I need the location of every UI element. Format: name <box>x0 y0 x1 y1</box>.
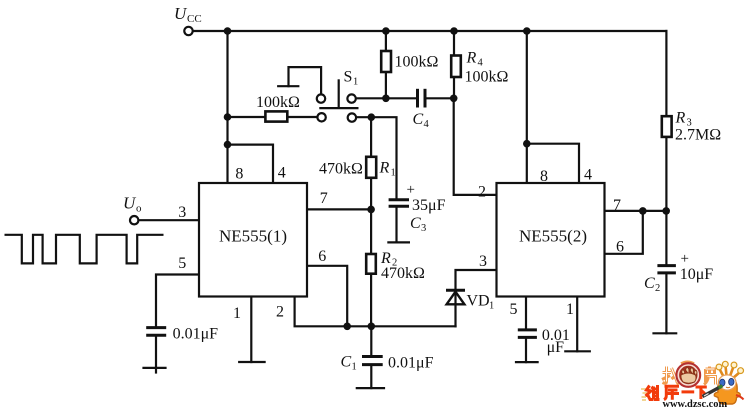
svg-text:CC: CC <box>187 13 202 25</box>
svg-text:+: + <box>681 251 689 267</box>
svg-text:C: C <box>410 215 421 232</box>
svg-text:3: 3 <box>178 204 186 221</box>
svg-text:470kΩ: 470kΩ <box>381 265 425 282</box>
svg-text:1: 1 <box>566 301 574 318</box>
svg-text:R: R <box>466 50 477 67</box>
svg-text:0.01μF: 0.01μF <box>388 355 434 372</box>
svg-text:100kΩ: 100kΩ <box>465 69 509 86</box>
svg-text:U: U <box>123 194 137 213</box>
svg-text:470kΩ: 470kΩ <box>319 161 363 178</box>
svg-text:10μF: 10μF <box>680 266 714 283</box>
svg-text:100kΩ: 100kΩ <box>256 94 300 111</box>
svg-text:2: 2 <box>655 283 660 294</box>
svg-text:5: 5 <box>510 301 518 318</box>
svg-text:C: C <box>413 111 424 128</box>
svg-text:4: 4 <box>424 119 430 130</box>
svg-text:6: 6 <box>616 239 624 256</box>
svg-text:NE555(1): NE555(1) <box>219 227 287 246</box>
svg-text:www.dzsc.com: www.dzsc.com <box>663 399 728 410</box>
svg-text:1: 1 <box>391 168 396 179</box>
svg-text:2: 2 <box>478 184 486 201</box>
svg-text:8: 8 <box>235 166 243 183</box>
svg-text:2: 2 <box>276 304 284 321</box>
svg-text:0.01μF: 0.01μF <box>173 326 219 343</box>
svg-text:2.7MΩ: 2.7MΩ <box>675 127 721 144</box>
svg-text:1: 1 <box>233 305 241 322</box>
svg-text:35μF: 35μF <box>412 197 446 214</box>
svg-text:+: + <box>407 182 415 198</box>
svg-text:100kΩ: 100kΩ <box>395 54 439 71</box>
svg-text:7: 7 <box>613 197 621 214</box>
svg-text:1: 1 <box>352 362 357 373</box>
svg-text:5: 5 <box>178 255 186 272</box>
svg-text:1: 1 <box>353 77 358 88</box>
svg-text:6: 6 <box>318 248 326 265</box>
svg-text:3: 3 <box>421 223 426 234</box>
svg-text:7: 7 <box>320 190 328 207</box>
svg-text:o: o <box>136 203 142 215</box>
svg-text:VD: VD <box>467 293 490 310</box>
svg-text:μF: μF <box>547 339 565 356</box>
svg-text:4: 4 <box>584 167 592 184</box>
svg-text:4: 4 <box>278 165 286 182</box>
svg-text:R: R <box>675 110 686 127</box>
svg-text:S: S <box>344 69 353 86</box>
svg-text:4: 4 <box>478 58 484 69</box>
svg-text:NE555(2): NE555(2) <box>519 227 587 246</box>
svg-text:3: 3 <box>479 253 487 270</box>
svg-text:C: C <box>341 354 352 371</box>
svg-text:8: 8 <box>540 168 548 185</box>
svg-text:R: R <box>379 160 390 177</box>
svg-text:1: 1 <box>489 301 494 312</box>
svg-text:C: C <box>644 275 655 292</box>
svg-text:U: U <box>174 4 188 23</box>
